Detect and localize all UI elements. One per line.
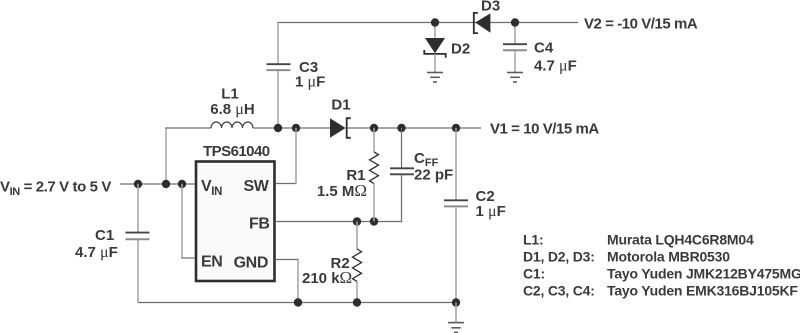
svg-text:D1: D1 bbox=[331, 97, 350, 114]
wire ground stem bbox=[455, 303, 457, 323]
capacitor C4 bbox=[503, 40, 577, 75]
node junction SW/V1 rail bbox=[292, 124, 300, 132]
resistor R2 bbox=[302, 249, 362, 287]
diode D1 bbox=[330, 97, 351, 138]
svg-text:FB: FB bbox=[249, 216, 270, 233]
svg-text:Tayo Yuden JMK212BY475MG: Tayo Yuden JMK212BY475MG bbox=[607, 266, 800, 282]
wire bottom rail bbox=[138, 302, 456, 304]
wire SW to V1 rail vertical bbox=[295, 128, 297, 184]
inductor L1 bbox=[210, 86, 254, 129]
node junction C2/rail/ground bbox=[452, 298, 460, 306]
capacitor C2 bbox=[444, 188, 506, 220]
wire CFF upper lead bbox=[401, 128, 403, 168]
node junction CFF/V1 rail bbox=[397, 124, 405, 132]
svg-text:V2 = -10 V/15 mA: V2 = -10 V/15 mA bbox=[584, 16, 698, 33]
node junction GND/rail bbox=[294, 298, 302, 306]
capacitor C1 bbox=[75, 227, 150, 261]
node junction C1/input bbox=[134, 180, 142, 188]
svg-text:TPS61040: TPS61040 bbox=[203, 143, 270, 160]
wire left branch vertical (VIN to L1) bbox=[165, 128, 167, 184]
wire C2 upper lead bbox=[455, 128, 457, 200]
node junction branch-up/input bbox=[162, 180, 170, 188]
ground symbol below D2 bbox=[427, 73, 443, 83]
wire C3 upper lead bbox=[277, 23, 279, 65]
svg-text:6.8 μH: 6.8 μH bbox=[210, 101, 254, 118]
wire D2 anode lead bbox=[434, 23, 436, 39]
svg-text:4.7 μF: 4.7 μF bbox=[534, 58, 577, 75]
svg-text:L1:: L1: bbox=[523, 232, 543, 248]
svg-text:Tayo Yuden EMK316BJ105KF: Tayo Yuden EMK316BJ105KF bbox=[607, 283, 798, 299]
svg-text:SW: SW bbox=[244, 178, 270, 195]
diode D3 bbox=[474, 0, 500, 33]
node junction C3/V1 rail bbox=[274, 124, 282, 132]
diode D2 bbox=[424, 38, 470, 58]
svg-text:C4: C4 bbox=[534, 40, 554, 57]
wire R2 upper lead bbox=[356, 222, 358, 250]
wire C4 upper lead bbox=[514, 23, 516, 45]
svg-text:GND: GND bbox=[234, 254, 268, 271]
wire top rail (V2 net) bbox=[277, 22, 578, 24]
svg-text:1 μF: 1 μF bbox=[476, 203, 506, 220]
wire V1 rail (D1 cathode to output) bbox=[348, 127, 482, 129]
node junction R1/V1 rail bbox=[370, 124, 378, 132]
svg-text:Motorola MBR0530: Motorola MBR0530 bbox=[607, 249, 730, 265]
wire C1 lower lead bbox=[137, 240, 139, 303]
wire GND pin horizontal bbox=[275, 259, 299, 261]
wire VIN input bbox=[120, 183, 195, 185]
wire R1 lower lead bbox=[373, 184, 375, 222]
svg-text:1.5 MΩ: 1.5 MΩ bbox=[317, 181, 367, 200]
wire SW pin horizontal bbox=[275, 183, 297, 185]
svg-text:C1:: C1: bbox=[523, 266, 545, 282]
ground symbol below C4 bbox=[507, 73, 523, 83]
wire L1 left lead bbox=[165, 127, 211, 129]
node junction C2/V1 rail bbox=[452, 124, 460, 132]
parts list notes bbox=[523, 232, 800, 299]
wire CFF lower lead bbox=[401, 175, 403, 223]
wire R1 upper lead bbox=[373, 128, 375, 152]
ground symbol bottom bbox=[448, 323, 464, 333]
wire D2 cathode lead bbox=[434, 54, 436, 73]
svg-text:4.7 μF: 4.7 μF bbox=[75, 244, 118, 261]
capacitor CFF bbox=[390, 150, 453, 184]
svg-text:C1: C1 bbox=[95, 227, 114, 244]
wire C1 upper lead bbox=[137, 184, 139, 233]
svg-text:D1, D2, D3:: D1, D2, D3: bbox=[523, 249, 595, 265]
svg-text:C2, C3, C4:: C2, C3, C4: bbox=[523, 283, 595, 299]
node junction C4/top rail bbox=[511, 18, 519, 26]
wire C3 lower lead bbox=[277, 70, 279, 128]
svg-text:Murata LQH4C6R8M04: Murata LQH4C6R8M04 bbox=[607, 232, 754, 248]
node junction R2/FB bbox=[353, 217, 361, 225]
svg-text:V1 = 10 V/15 mA: V1 = 10 V/15 mA bbox=[490, 121, 599, 138]
wire C2 lower lead bbox=[455, 207, 457, 303]
node junction R1/FB bbox=[370, 217, 378, 225]
node junction EN/input bbox=[178, 180, 186, 188]
svg-text:22 pF: 22 pF bbox=[414, 167, 453, 184]
wire GND pin vertical to rail bbox=[297, 260, 299, 303]
capacitor C3 bbox=[267, 59, 326, 91]
svg-text:D3: D3 bbox=[481, 0, 500, 15]
node junction D2/top rail bbox=[431, 18, 439, 26]
wire EN branch horizontal bbox=[181, 257, 195, 259]
svg-text:1 μF: 1 μF bbox=[295, 74, 325, 91]
wire L1 right lead to D1 bbox=[253, 127, 330, 129]
op-amp U1 TPS61040 bbox=[196, 143, 275, 281]
wire C4 lower lead bbox=[514, 51, 516, 73]
node junction R2/rail bbox=[353, 298, 361, 306]
svg-text:210 kΩ: 210 kΩ bbox=[302, 268, 352, 287]
wire R2 lower lead bbox=[356, 281, 358, 302]
resistor R1 bbox=[317, 152, 379, 200]
svg-text:L1: L1 bbox=[221, 86, 239, 103]
wire EN branch vertical bbox=[181, 184, 183, 258]
wire FB line bbox=[275, 221, 402, 223]
svg-text:D2: D2 bbox=[451, 41, 470, 58]
svg-text:EN: EN bbox=[201, 253, 222, 270]
